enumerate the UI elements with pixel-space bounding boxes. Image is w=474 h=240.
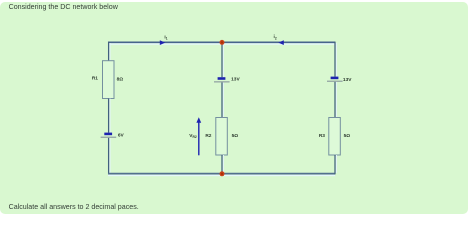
battery V1 6V long plate: [101, 137, 117, 138]
wire top-left segment: [108, 42, 222, 44]
node B bottom junction: [220, 171, 225, 176]
wire bottom-right segment: [222, 174, 335, 176]
value label 5ohm R2: [232, 133, 239, 139]
svg-text:5Ω: 5Ω: [344, 133, 351, 139]
value label 8ohm: [117, 76, 124, 82]
value label 6V: [118, 133, 125, 139]
svg-text:R1: R1: [92, 76, 98, 82]
svg-text:R3: R3: [319, 133, 325, 139]
battery V2 13V short plate: [218, 77, 226, 80]
value label 13V middle: [231, 77, 240, 83]
resistor R1: [103, 61, 115, 99]
value label 5ohm R3: [344, 133, 351, 139]
wire battery V2 to resistor R2: [222, 83, 223, 118]
label R3: [319, 133, 325, 139]
svg-text:13V: 13V: [231, 77, 240, 83]
wire top-right segment: [222, 42, 335, 44]
label R2: [205, 133, 211, 139]
wire left branch upper: [109, 42, 110, 61]
svg-text:6V: 6V: [118, 133, 125, 139]
voltage arrow VR2: [196, 117, 201, 155]
wire node A to battery V2: [222, 43, 223, 77]
battery V3 13V long plate: [327, 81, 343, 82]
svg-text:i2: i2: [274, 34, 277, 40]
wire R2 to bottom node: [222, 155, 223, 174]
battery V2 13V long plate: [214, 81, 230, 82]
wire bottom-left segment: [108, 174, 222, 176]
svg-text:8Ω: 8Ω: [117, 76, 124, 82]
wire R1 to battery V1: [109, 99, 110, 133]
label i1: [164, 35, 167, 41]
resistor R3: [329, 118, 341, 156]
battery V1 6V short plate: [104, 133, 112, 136]
svg-text:R2: R2: [205, 133, 211, 139]
wire battery V1 to bottom-left corner: [109, 138, 110, 175]
wire battery V3 to resistor R3: [335, 82, 336, 118]
wire right branch upper: [335, 42, 336, 77]
svg-text:i1: i1: [164, 35, 167, 41]
battery V3 13V short plate: [331, 77, 339, 80]
svg-text:VR2: VR2: [189, 133, 197, 139]
svg-text:5Ω: 5Ω: [232, 133, 239, 139]
resistor R2: [216, 118, 228, 156]
node A top junction: [220, 40, 225, 45]
label i2: [274, 34, 277, 40]
current arrow i2: [278, 40, 284, 45]
wire R3 to bottom-right corner: [335, 155, 336, 174]
label R1: [92, 76, 98, 82]
label VR2: [189, 133, 197, 139]
current arrow i1: [160, 40, 166, 45]
svg-text:13V: 13V: [343, 77, 352, 83]
value label 13V right: [343, 77, 352, 83]
